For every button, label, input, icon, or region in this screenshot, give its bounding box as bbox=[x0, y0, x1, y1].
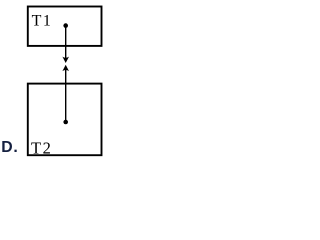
node dot in T2 bbox=[63, 120, 68, 125]
answer choice label D. bbox=[1, 139, 18, 156]
label T1 bbox=[32, 13, 53, 30]
label T2 bbox=[31, 139, 52, 158]
arrowhead pointing down (T1 waits for T2) bbox=[62, 57, 69, 63]
svg-text:D.: D. bbox=[1, 139, 18, 156]
arrowhead pointing up (T2 waits for T1) bbox=[62, 65, 69, 71]
svg-text:T2: T2 bbox=[31, 139, 52, 158]
node dot in T1 bbox=[63, 23, 68, 28]
transaction box T2 bbox=[28, 84, 102, 156]
wire T1 dot to down arrowhead bbox=[65, 26, 67, 59]
transaction box T1 bbox=[28, 7, 102, 46]
wire up arrowhead to T2 dot bbox=[65, 70, 67, 123]
svg-text:T1: T1 bbox=[32, 13, 53, 30]
